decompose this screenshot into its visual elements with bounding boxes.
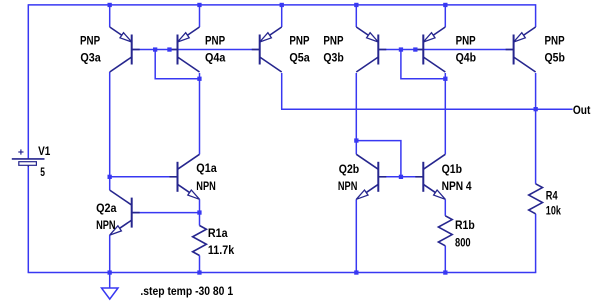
ground (102, 273, 119, 300)
svg-text:Q5b: Q5b (545, 50, 565, 64)
svg-text:PNP: PNP (545, 34, 565, 48)
wire Q3a emitter feed (109, 5, 111, 27)
svg-text:NPN: NPN (96, 218, 116, 232)
resistor R1b (438, 216, 452, 246)
svg-text:Q2a: Q2a (96, 201, 117, 215)
wire Q5a collector drop (281, 73, 283, 109)
svg-text:PNP: PNP (80, 34, 100, 48)
svg-text:11.7k: 11.7k (208, 243, 235, 257)
transistor Q5a (252, 27, 282, 72)
node Out / R4 / Q5b collector (534, 107, 538, 111)
wire Q4b collector to Q1b collector (444, 73, 446, 154)
wire R1b bottom lead (444, 246, 446, 273)
node top rail / Q3a emitter (108, 3, 112, 7)
node top rail / Q5a emitter (280, 3, 284, 7)
node Q4a base pin (167, 47, 171, 51)
svg-text:NPN 4: NPN 4 (442, 179, 472, 193)
wire right mirror base rail (378, 49, 513, 51)
node Q4b collector junction (443, 77, 447, 81)
node ground rail / R1b (443, 270, 447, 274)
wire Q5b emitter feed (535, 4, 537, 27)
wire Q1b emitter to R1b (444, 199, 446, 216)
transistor Q2a (110, 190, 140, 235)
svg-text:R1a: R1a (208, 226, 228, 240)
transistor Q2b (356, 154, 386, 199)
wire Q2b collector riser (355, 141, 357, 155)
wire Q3b collector drop (355, 73, 357, 141)
svg-text:Q3a: Q3a (80, 50, 101, 64)
node ground rail / R1a (197, 270, 201, 274)
transistor Q1b (415, 154, 445, 199)
wire left rail upper (V+ to battery) (27, 4, 29, 159)
transistor Q3a (110, 27, 140, 72)
svg-text:Q2b: Q2b (339, 162, 359, 176)
svg-text:Q5a: Q5a (289, 50, 310, 64)
node ground rail / Q2b emitter (354, 270, 358, 274)
svg-text:.step temp -30 80 1: .step temp -30 80 1 (140, 284, 233, 298)
svg-text:Q4b: Q4b (456, 50, 476, 64)
node Q1a emitter / Q2a base / R1a (197, 210, 201, 214)
wire R4 bottom to ground rail (535, 214, 537, 273)
node Q4b base pin (413, 47, 417, 51)
svg-text:PNP: PNP (289, 34, 309, 48)
wire Out rail (281, 108, 573, 110)
wire Q4a emitter feed (199, 5, 201, 27)
wire Q2a emitter drop (109, 235, 111, 272)
node ground rail / Q2a emitter / gnd (108, 270, 112, 274)
node Q3a collector / Q1a base (108, 175, 112, 179)
wire Out to R4 top (535, 109, 537, 184)
wire Q5b collector to Out (535, 73, 537, 109)
transistor Q5b (506, 27, 536, 72)
svg-text:PNP: PNP (323, 34, 343, 48)
wire R1a top lead (199, 213, 201, 226)
svg-text:Q4a: Q4a (205, 50, 226, 64)
svg-text:PNP: PNP (456, 34, 476, 48)
voltage source V1 (battery) (12, 149, 45, 167)
svg-text:NPN: NPN (196, 179, 216, 193)
svg-text:V1: V1 (38, 144, 50, 158)
wire left rail lower (battery to ground rail) (27, 165, 29, 272)
svg-text:800: 800 (455, 236, 471, 250)
wire R1a bottom lead (199, 256, 201, 273)
node left base rail tap (153, 47, 157, 51)
node top rail / Q4a emitter (197, 3, 201, 7)
node top rail / Q3b emitter (354, 3, 358, 7)
wire Q1a emitter drop (199, 199, 201, 212)
svg-text:R4: R4 (546, 189, 558, 203)
node top rail / Q4b emitter (443, 3, 447, 7)
resistor R4 (529, 184, 543, 214)
svg-text:NPN: NPN (338, 179, 358, 193)
svg-text:Q1b: Q1b (442, 162, 462, 176)
transistor Q4b (415, 27, 445, 72)
node Q3b/Q2b collector junction (354, 138, 358, 142)
wire Q2b/Q1b base (378, 176, 423, 178)
svg-text:Q3b: Q3b (323, 50, 343, 64)
transistor Q4a (170, 27, 200, 72)
wire left mirror base rail (132, 49, 260, 51)
wire Q2a base (132, 212, 200, 214)
node Q4a collector junction (197, 77, 201, 81)
svg-text:5: 5 (40, 165, 45, 179)
wire Q1a base (110, 176, 178, 178)
svg-text:Q1a: Q1a (196, 161, 217, 175)
wire Q5a emitter feed (281, 5, 283, 27)
wire Q3a collector to Q2a collector (109, 72, 111, 190)
wire Q4b emitter feed (444, 5, 446, 27)
wire right diode-connect L upper (401, 50, 445, 79)
node right base rail tap (399, 47, 403, 51)
node Q2b/Q1b base junction (399, 175, 403, 179)
transistor Q1a (170, 154, 200, 199)
wire Q3b emitter feed (355, 5, 357, 27)
wire top supply rail (28, 4, 535, 6)
wire Q4a collector to Q1a collector (199, 73, 201, 154)
wire left diode-connect L (155, 50, 199, 79)
resistor R1a (193, 226, 207, 256)
svg-text:10k: 10k (546, 203, 561, 217)
wire Q2b emitter drop (355, 199, 357, 272)
transistor Q3b (356, 27, 386, 72)
svg-text:R1b: R1b (455, 218, 475, 232)
wire right diode-connect L lower (356, 141, 401, 177)
wire bottom ground rail (28, 272, 537, 274)
svg-text:PNP: PNP (205, 34, 225, 48)
svg-text:Out: Out (573, 103, 591, 117)
